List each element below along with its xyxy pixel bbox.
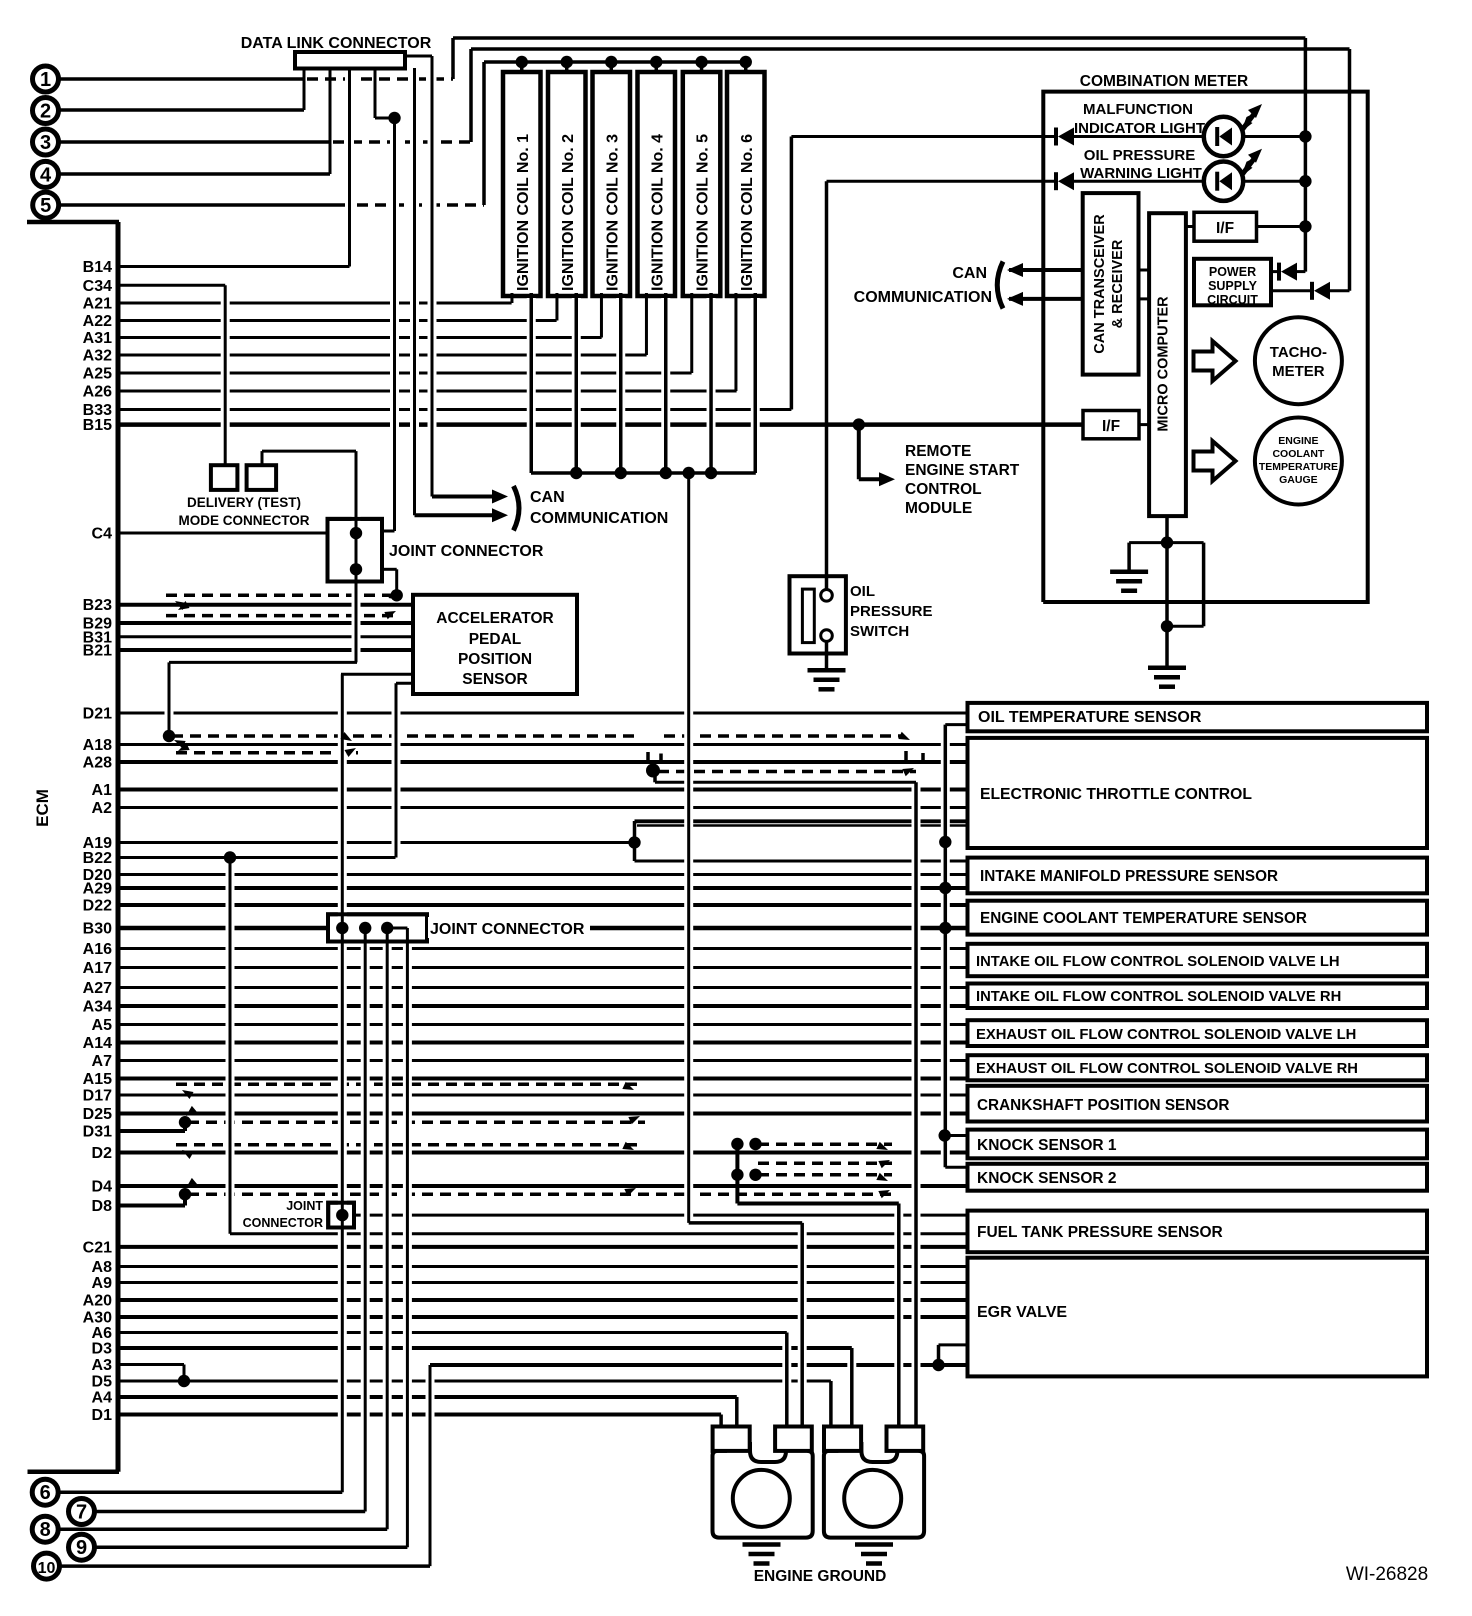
svg-text:INTAKE MANIFOLD PRESSURE SENSO: INTAKE MANIFOLD PRESSURE SENSOR: [980, 868, 1278, 885]
svg-text:SENSOR: SENSOR: [462, 671, 527, 688]
svg-text:D21: D21: [83, 706, 112, 723]
svg-text:A3: A3: [92, 1357, 113, 1374]
svg-text:C21: C21: [83, 1239, 112, 1256]
svg-text:A29: A29: [83, 881, 112, 898]
svg-text:KNOCK SENSOR 2: KNOCK SENSOR 2: [977, 1170, 1117, 1187]
svg-text:IGNITION COIL No. 6: IGNITION COIL No. 6: [739, 134, 756, 291]
svg-text:2: 2: [40, 101, 51, 123]
svg-text:CAN: CAN: [952, 265, 987, 282]
svg-text:5: 5: [40, 195, 51, 217]
svg-text:B22: B22: [83, 850, 112, 867]
svg-text:A4: A4: [92, 1390, 113, 1407]
svg-text:EXHAUST OIL FLOW CONTROL SOLEN: EXHAUST OIL FLOW CONTROL SOLENOID VALVE …: [976, 1027, 1356, 1043]
svg-text:9: 9: [76, 1537, 87, 1559]
svg-text:D2: D2: [92, 1145, 113, 1162]
svg-text:TACHO-: TACHO-: [1270, 344, 1327, 361]
svg-text:MICRO COMPUTER: MICRO COMPUTER: [1156, 296, 1172, 432]
svg-text:A14: A14: [83, 1035, 112, 1052]
svg-text:D5: D5: [92, 1374, 113, 1391]
svg-text:A25: A25: [83, 366, 112, 383]
svg-text:EGR VALVE: EGR VALVE: [977, 1304, 1067, 1321]
svg-text:A28: A28: [83, 755, 112, 772]
svg-text:& RECEIVER: & RECEIVER: [1110, 239, 1126, 328]
svg-text:A8: A8: [92, 1259, 113, 1276]
svg-text:INTAKE OIL FLOW CONTROL SOLENO: INTAKE OIL FLOW CONTROL SOLENOID VALVE L…: [976, 954, 1340, 970]
svg-text:JOINT: JOINT: [286, 1199, 323, 1213]
svg-text:SUPPLY: SUPPLY: [1208, 279, 1258, 293]
svg-text:ECM: ECM: [33, 789, 52, 827]
svg-text:6: 6: [40, 1482, 51, 1504]
svg-text:C4: C4: [92, 526, 113, 543]
svg-text:KNOCK SENSOR 1: KNOCK SENSOR 1: [977, 1137, 1117, 1154]
svg-text:D31: D31: [83, 1124, 112, 1141]
svg-text:A34: A34: [83, 999, 112, 1016]
svg-text:A30: A30: [83, 1310, 112, 1327]
svg-text:D4: D4: [92, 1179, 113, 1196]
svg-text:CAN: CAN: [530, 489, 565, 506]
svg-text:ELECTRONIC THROTTLE CONTROL: ELECTRONIC THROTTLE CONTROL: [980, 786, 1252, 803]
svg-text:EXHAUST OIL FLOW CONTROL SOLEN: EXHAUST OIL FLOW CONTROL SOLENOID VALVE …: [976, 1061, 1358, 1077]
svg-text:GAUGE: GAUGE: [1279, 474, 1318, 486]
svg-text:POWER: POWER: [1209, 265, 1256, 279]
svg-text:INDICATOR LIGHT: INDICATOR LIGHT: [1074, 120, 1205, 137]
svg-text:10: 10: [38, 1560, 56, 1577]
svg-text:8: 8: [40, 1519, 51, 1541]
svg-text:INTAKE OIL FLOW CONTROL SOLENO: INTAKE OIL FLOW CONTROL SOLENOID VALVE R…: [976, 989, 1341, 1005]
svg-text:A16: A16: [83, 941, 112, 958]
svg-text:SWITCH: SWITCH: [850, 623, 909, 640]
svg-text:IGNITION COIL No. 2: IGNITION COIL No. 2: [560, 134, 577, 291]
svg-text:A22: A22: [83, 313, 112, 330]
svg-text:A31: A31: [83, 330, 112, 347]
svg-text:COMBINATION METER: COMBINATION METER: [1080, 73, 1248, 90]
svg-text:CIRCUIT: CIRCUIT: [1207, 293, 1258, 307]
svg-text:A20: A20: [83, 1293, 112, 1310]
svg-text:B21: B21: [83, 643, 112, 660]
svg-text:I/F: I/F: [1216, 220, 1234, 237]
svg-text:A32: A32: [83, 348, 112, 365]
svg-text:OIL: OIL: [850, 583, 875, 600]
svg-text:D17: D17: [83, 1088, 112, 1105]
svg-text:ACCELERATOR: ACCELERATOR: [436, 610, 553, 627]
svg-text:POSITION: POSITION: [458, 651, 532, 668]
svg-text:A6: A6: [92, 1325, 113, 1342]
svg-text:COMMUNICATION: COMMUNICATION: [530, 510, 668, 527]
svg-text:ENGINE GROUND: ENGINE GROUND: [754, 1568, 887, 1585]
svg-text:CONTROL: CONTROL: [905, 481, 982, 498]
svg-text:REMOTE: REMOTE: [905, 443, 971, 460]
svg-text:B14: B14: [83, 259, 112, 276]
svg-text:DATA LINK CONNECTOR: DATA LINK CONNECTOR: [241, 35, 432, 52]
svg-text:DELIVERY (TEST): DELIVERY (TEST): [187, 495, 301, 510]
svg-text:3: 3: [40, 132, 51, 154]
svg-text:A2: A2: [92, 800, 113, 817]
svg-text:A1: A1: [92, 782, 113, 799]
svg-text:PEDAL: PEDAL: [469, 631, 522, 648]
svg-text:OIL PRESSURE: OIL PRESSURE: [1084, 147, 1195, 164]
svg-text:A26: A26: [83, 384, 112, 401]
svg-text:B23: B23: [83, 597, 112, 614]
svg-text:MODULE: MODULE: [905, 500, 972, 517]
svg-text:METER: METER: [1272, 363, 1325, 380]
svg-text:FUEL TANK PRESSURE SENSOR: FUEL TANK PRESSURE SENSOR: [977, 1224, 1223, 1241]
svg-text:D22: D22: [83, 898, 112, 915]
svg-text:4: 4: [40, 164, 52, 186]
svg-text:A27: A27: [83, 980, 112, 997]
svg-text:D3: D3: [92, 1341, 113, 1358]
svg-text:A7: A7: [92, 1053, 113, 1070]
svg-text:A21: A21: [83, 296, 112, 313]
svg-text:IGNITION COIL No. 5: IGNITION COIL No. 5: [695, 134, 712, 291]
svg-text:A5: A5: [92, 1017, 113, 1034]
svg-text:COOLANT: COOLANT: [1272, 448, 1324, 460]
svg-text:A15: A15: [83, 1071, 112, 1088]
svg-text:MALFUNCTION: MALFUNCTION: [1083, 101, 1193, 118]
svg-text:D1: D1: [92, 1407, 113, 1424]
svg-text:A18: A18: [83, 737, 112, 754]
svg-text:MODE CONNECTOR: MODE CONNECTOR: [178, 513, 309, 528]
svg-text:CONNECTOR: CONNECTOR: [243, 1216, 323, 1230]
svg-text:TEMPERATURE: TEMPERATURE: [1259, 461, 1338, 473]
svg-text:ENGINE START: ENGINE START: [905, 462, 1020, 479]
svg-text:A9: A9: [92, 1275, 113, 1292]
svg-text:CAN TRANSCEIVER: CAN TRANSCEIVER: [1092, 214, 1108, 354]
svg-text:PRESSURE: PRESSURE: [850, 603, 933, 620]
svg-text:IGNITION COIL No. 4: IGNITION COIL No. 4: [649, 134, 666, 291]
svg-text:COMMUNICATION: COMMUNICATION: [854, 289, 992, 306]
svg-text:OIL TEMPERATURE SENSOR: OIL TEMPERATURE SENSOR: [978, 709, 1202, 726]
svg-text:1: 1: [40, 69, 51, 91]
svg-text:JOINT CONNECTOR: JOINT CONNECTOR: [430, 921, 585, 938]
svg-text:ENGINE: ENGINE: [1278, 435, 1318, 447]
svg-text:JOINT CONNECTOR: JOINT CONNECTOR: [389, 543, 544, 560]
svg-text:B15: B15: [83, 417, 112, 434]
svg-text:C34: C34: [83, 278, 112, 295]
svg-text:A17: A17: [83, 960, 112, 977]
svg-text:CRANKSHAFT POSITION SENSOR: CRANKSHAFT POSITION SENSOR: [977, 1097, 1229, 1114]
svg-text:D8: D8: [92, 1198, 113, 1215]
svg-text:WARNING LIGHT: WARNING LIGHT: [1080, 165, 1202, 182]
svg-text:B30: B30: [83, 921, 112, 938]
svg-text:WI-26828: WI-26828: [1346, 1564, 1428, 1585]
svg-text:ENGINE COOLANT TEMPERATURE SEN: ENGINE COOLANT TEMPERATURE SENSOR: [980, 910, 1307, 927]
svg-text:7: 7: [76, 1502, 87, 1524]
svg-text:IGNITION COIL No. 3: IGNITION COIL No. 3: [604, 134, 621, 291]
svg-text:IGNITION COIL No. 1: IGNITION COIL No. 1: [515, 134, 532, 291]
svg-text:I/F: I/F: [1102, 418, 1120, 435]
svg-text:D25: D25: [83, 1106, 112, 1123]
